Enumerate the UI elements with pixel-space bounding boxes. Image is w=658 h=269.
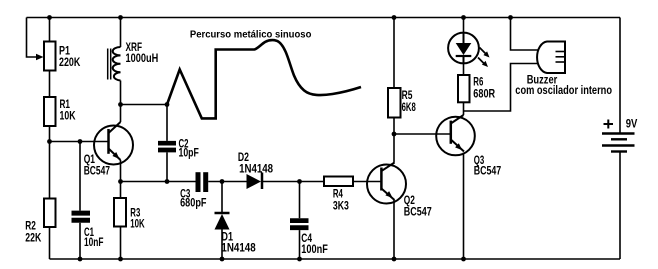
svg-text:BC547: BC547 bbox=[84, 165, 110, 177]
inductor XRF coil bbox=[113, 47, 121, 81]
svg-text:22K: 22K bbox=[25, 233, 42, 245]
wire D2 to R4 bbox=[262, 181, 324, 183]
node: R5 / Q2 collector / Q3 base junction bbox=[392, 132, 397, 137]
wire LED top lead bbox=[463, 18, 465, 34]
svg-text:R5: R5 bbox=[402, 90, 413, 102]
node: D1 top junction bbox=[220, 179, 225, 184]
node: Q3 emitter ground junction bbox=[461, 257, 466, 262]
wire R4 to Q2 base bbox=[353, 181, 381, 183]
svg-text:10K: 10K bbox=[130, 219, 145, 231]
buzzer body bbox=[537, 42, 565, 74]
wire Q3 collector lead up to R6 bbox=[463, 102, 465, 115]
wire base node down to R2 bbox=[49, 142, 51, 199]
wire R3 bottom lead bbox=[120, 227, 122, 260]
LED D3 bbox=[448, 33, 479, 64]
svg-text:6K8: 6K8 bbox=[402, 102, 417, 114]
resistor R4 body bbox=[324, 177, 353, 187]
battery plus sign bbox=[604, 120, 614, 129]
node: D1 ground junction bbox=[220, 257, 225, 262]
svg-text:10K: 10K bbox=[60, 111, 77, 123]
wire Q1 collector lead bbox=[120, 105, 122, 123]
wire R5 top lead bbox=[393, 18, 395, 89]
transistor Q1 bbox=[94, 122, 133, 165]
svg-text:1000uH: 1000uH bbox=[126, 53, 159, 65]
wire P1 top lead bbox=[49, 18, 51, 42]
svg-text:1N4148: 1N4148 bbox=[239, 163, 273, 175]
wire R5 bottom lead bbox=[393, 118, 395, 135]
wire Q1 emitter lead bbox=[120, 160, 122, 182]
transistor Q2 bbox=[367, 163, 406, 204]
svg-text:680R: 680R bbox=[473, 88, 495, 100]
svg-text:R6: R6 bbox=[473, 76, 483, 88]
wire C2 node to C3 bbox=[167, 181, 196, 183]
battery B1 9V bbox=[602, 134, 635, 152]
wire R2 bottom to ground rail corner bbox=[49, 227, 51, 259]
wire Q1 base wire bbox=[50, 141, 109, 143]
svg-text:10pF: 10pF bbox=[179, 147, 199, 159]
LED light arrows bbox=[478, 48, 490, 68]
wire P1 to R1 bbox=[49, 71, 51, 98]
node: C2 bottom junction bbox=[165, 179, 170, 184]
wire top supply rail bbox=[27, 17, 621, 19]
node: C1 top junction bbox=[78, 139, 83, 144]
svg-text:10nF: 10nF bbox=[84, 237, 104, 249]
wire buzzer top lead bbox=[511, 18, 539, 51]
wire emitter node to C2 node bbox=[121, 181, 168, 183]
node: Q1 emitter / R3 junction bbox=[118, 179, 123, 184]
svg-text:R4: R4 bbox=[333, 188, 343, 200]
node: C1 ground junction bbox=[78, 257, 83, 262]
wire D1 bottom lead bbox=[221, 230, 223, 260]
wire D1 top lead bbox=[221, 182, 223, 213]
svg-text:com oscilador interno: com oscilador interno bbox=[515, 85, 612, 97]
wire battery top lead bbox=[619, 18, 621, 134]
svg-text:3K3: 3K3 bbox=[333, 201, 349, 213]
wire C3 to D1 node bbox=[208, 181, 246, 183]
wire LED to R6 bbox=[463, 63, 465, 75]
capacitor C2 plates bbox=[158, 141, 176, 146]
wire C2 bottom lead bbox=[166, 152, 168, 181]
svg-text:Percurso metálico sinuoso: Percurso metálico sinuoso bbox=[190, 29, 312, 40]
wire Q3 base wire bbox=[394, 133, 451, 135]
svg-text:Q2: Q2 bbox=[404, 195, 415, 207]
wire C1 top lead bbox=[79, 142, 81, 211]
wire XRF bottom to oscillator node bbox=[120, 81, 122, 105]
svg-text:Q1: Q1 bbox=[84, 154, 96, 166]
svg-text:R1: R1 bbox=[60, 99, 71, 111]
node: R3 ground junction bbox=[118, 257, 123, 262]
wire C1 bottom lead bbox=[79, 223, 81, 259]
capacitor C4 plates bbox=[290, 218, 309, 223]
svg-text:R2: R2 bbox=[25, 221, 36, 233]
node: top rail / LED junction bbox=[461, 15, 466, 20]
node: top rail / P1 junction bbox=[47, 15, 52, 20]
wire C4 top lead bbox=[299, 182, 301, 219]
svg-text:P1: P1 bbox=[59, 46, 70, 58]
svg-text:100nF: 100nF bbox=[301, 244, 328, 256]
node: top rail / R5 junction bbox=[392, 15, 397, 20]
svg-text:BC547: BC547 bbox=[404, 207, 432, 219]
node: Q2 emitter ground junction bbox=[392, 257, 397, 262]
potentiometer P1 wiper arrow bbox=[36, 54, 44, 60]
wire battery bottom lead bbox=[619, 152, 621, 260]
node: C4 top junction bbox=[297, 179, 302, 184]
wire bottom ground rail bbox=[50, 258, 621, 260]
wire Q3 emitter lead bbox=[463, 153, 465, 260]
wire oscillator node horizontal bbox=[121, 104, 168, 106]
wire P1 wiper loop bbox=[27, 18, 38, 58]
node: top rail / XRF junction bbox=[118, 15, 123, 20]
svg-text:9V: 9V bbox=[626, 119, 638, 131]
wire Q2 emitter lead bbox=[393, 200, 395, 259]
node: C4 ground junction bbox=[297, 257, 302, 262]
diode D1 bbox=[215, 213, 230, 230]
wire sinuous metal path bbox=[167, 40, 361, 118]
potentiometer P1 body bbox=[44, 42, 56, 71]
resistor R1 body bbox=[44, 97, 56, 126]
inductor XRF core lines bbox=[107, 49, 109, 80]
resistor R2 body bbox=[44, 199, 56, 228]
wire buzzer bottom lead bbox=[464, 64, 541, 112]
node: top rail / buzzer junction bbox=[508, 15, 513, 20]
wire C2 top lead bbox=[166, 105, 168, 141]
node: XRF / Q1 collector junction bbox=[118, 102, 123, 107]
wire XRF top lead bbox=[120, 18, 122, 48]
svg-text:D2: D2 bbox=[238, 152, 249, 164]
capacitor C1 plates bbox=[72, 211, 91, 216]
svg-text:1N4148: 1N4148 bbox=[221, 243, 256, 255]
wire C4 bottom lead bbox=[299, 230, 301, 259]
svg-text:220K: 220K bbox=[59, 57, 81, 69]
wire R3 top lead bbox=[120, 182, 122, 199]
node: R1/R2/base junction bbox=[47, 139, 52, 144]
wire Q2 collector lead bbox=[393, 134, 395, 163]
capacitor C3 plates bbox=[196, 172, 201, 192]
resistor R3 body bbox=[114, 198, 126, 227]
svg-text:680pF: 680pF bbox=[180, 198, 206, 210]
svg-text:BC547: BC547 bbox=[474, 166, 502, 178]
resistor R5 body bbox=[388, 88, 401, 118]
wire R1 to base node bbox=[49, 126, 51, 142]
resistor R6 body bbox=[458, 75, 470, 102]
node: sense wire / C2 junction bbox=[165, 102, 170, 107]
transistor Q3 bbox=[436, 115, 475, 155]
diode D2 bbox=[247, 173, 263, 190]
